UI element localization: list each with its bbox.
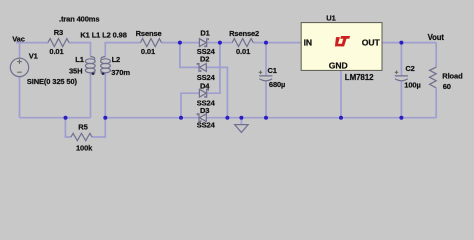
wire L2 top to Rsense xyxy=(105,43,140,57)
wire Rload bottom lead xyxy=(435,88,437,118)
svg-text:35H: 35H xyxy=(69,67,82,76)
wire D2 anode over and down to ground rail xyxy=(206,67,227,117)
C2 plus sign xyxy=(395,71,399,75)
diode D4 xyxy=(199,89,208,97)
capacitor C2 plates xyxy=(395,76,408,81)
resistor Rsense2 xyxy=(232,39,253,47)
node L2 bottom dot xyxy=(103,116,107,120)
node C1 bottom dot xyxy=(264,116,268,120)
svg-text:D3: D3 xyxy=(200,106,209,115)
svg-text:0.01: 0.01 xyxy=(236,47,250,56)
V1 plus sign xyxy=(17,59,22,64)
wire V1 bottom lead xyxy=(19,77,21,118)
inductor L2 coil xyxy=(101,57,105,60)
resistor Rload xyxy=(430,67,437,88)
svg-text:D2: D2 xyxy=(200,54,209,63)
transformer phase dot L1 xyxy=(92,73,95,76)
junction dots xyxy=(64,41,404,120)
resistor Rsense xyxy=(141,39,162,47)
svg-text:C2: C2 xyxy=(405,64,414,73)
svg-text:L2: L2 xyxy=(112,55,121,64)
wire top rail left xyxy=(16,42,48,44)
wire Rsense2 to U1 IN xyxy=(253,42,301,44)
svg-text:V1: V1 xyxy=(29,52,38,61)
svg-text:680µ: 680µ xyxy=(269,80,285,89)
svg-text:Rload: Rload xyxy=(442,71,463,80)
wire AC2 bottom rail xyxy=(105,117,199,119)
wire R3 to L1 top xyxy=(69,43,91,57)
svg-text:0.01: 0.01 xyxy=(141,47,155,56)
node Vout dot xyxy=(399,41,403,45)
node GND pin dot xyxy=(339,116,343,120)
node D2 anode dot xyxy=(225,116,229,120)
svg-text:100µ: 100µ xyxy=(404,81,420,90)
resistor R5 xyxy=(71,133,92,140)
wire U1 GND pin xyxy=(340,70,342,117)
node C2 bottom dot xyxy=(399,116,403,120)
svg-text:U1: U1 xyxy=(326,14,335,23)
wire C2 bottom lead xyxy=(400,81,402,118)
svg-text:C1: C1 xyxy=(268,66,277,75)
svg-text:SINE(0 325 50): SINE(0 325 50) xyxy=(27,77,78,86)
svg-text:OUT: OUT xyxy=(362,37,381,47)
node plus dot xyxy=(218,41,222,45)
wire V1 top lead xyxy=(19,43,21,59)
wire AC1 down to D2 row xyxy=(180,43,199,68)
svg-text:.tran 400ms: .tran 400ms xyxy=(59,14,99,23)
node R5 left dot xyxy=(64,116,68,120)
C1 plus sign xyxy=(259,71,263,75)
node D4 anode dot xyxy=(179,116,183,120)
inductor L1 coil xyxy=(91,57,95,60)
node AC1 dot xyxy=(178,41,182,45)
wire bottom left rail xyxy=(20,117,91,119)
svg-text:IN: IN xyxy=(304,37,312,47)
svg-text:SS24: SS24 xyxy=(197,121,216,130)
wire ground rail right xyxy=(206,117,436,119)
wire Rsense to node AC1 xyxy=(162,42,180,44)
resistor R3 xyxy=(48,39,69,47)
svg-text:Rsense2: Rsense2 xyxy=(229,29,259,38)
wire L2 bottom lead xyxy=(104,74,106,118)
wire U1 OUT to Vout corner xyxy=(382,42,436,44)
transformer phase dot L2 xyxy=(102,73,105,76)
svg-text:D4: D4 xyxy=(200,81,210,90)
V1 minus sign xyxy=(17,71,22,73)
ground symbol xyxy=(235,125,249,133)
svg-text:Vac: Vac xyxy=(12,34,25,43)
svg-text:K1 L1 L2 0.98: K1 L1 L2 0.98 xyxy=(80,30,126,39)
svg-text:D1: D1 xyxy=(200,28,209,37)
wire L1 bottom lead xyxy=(90,74,92,118)
regulator U1 box xyxy=(301,23,382,71)
wire node AC1 to D1 anode xyxy=(180,42,200,44)
LT logo xyxy=(335,36,350,46)
wire C1 top lead xyxy=(265,43,267,76)
voltage source V1 circle xyxy=(10,58,28,76)
wire C2 top lead xyxy=(400,43,402,76)
wire Rload top lead xyxy=(435,43,437,68)
node ground dot xyxy=(239,116,243,120)
wire node plus down to D4 cathode xyxy=(207,43,220,94)
wire R5 loop xyxy=(65,118,71,137)
svg-text:370m: 370m xyxy=(111,68,130,77)
wire C1 bottom lead xyxy=(265,81,267,118)
wire ground stub xyxy=(240,118,242,125)
svg-text:Rsense: Rsense xyxy=(136,29,162,38)
svg-text:Vout: Vout xyxy=(428,33,445,42)
svg-text:100k: 100k xyxy=(76,143,93,152)
svg-text:R5: R5 xyxy=(78,123,87,132)
diode D1 xyxy=(199,39,208,47)
svg-text:R3: R3 xyxy=(54,28,63,37)
svg-text:L1: L1 xyxy=(75,55,84,64)
wire node plus to Rsense2 xyxy=(220,42,232,44)
diode D3 xyxy=(197,114,206,122)
node C1 top dot xyxy=(264,41,268,45)
capacitor C1 plates xyxy=(259,76,272,81)
svg-text:LM7812: LM7812 xyxy=(345,73,374,82)
svg-text:0.01: 0.01 xyxy=(49,47,63,56)
svg-text:GND: GND xyxy=(329,61,348,71)
svg-text:60: 60 xyxy=(443,82,451,91)
diode D2 xyxy=(197,64,206,72)
wire D1 cathode to node plus xyxy=(207,42,220,44)
wire D4 anode to AC2 rail xyxy=(181,93,199,118)
